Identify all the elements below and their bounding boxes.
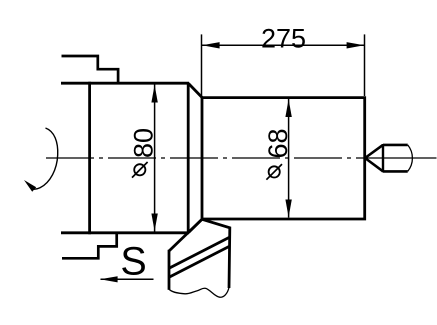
dimension 275 extension line right	[364, 34, 366, 96]
chuck top jaw clamp line / workpiece top edge	[61, 82, 189, 85]
dimension Ø68 arrowhead top	[285, 99, 291, 117]
tailstock center body top	[383, 144, 408, 147]
svg-text:S: S	[120, 240, 146, 284]
workpiece big cylinder right edge	[187, 83, 190, 233]
centerline	[46, 157, 366, 159]
svg-text:275: 275	[261, 23, 306, 53]
dimension 275 line	[202, 44, 365, 46]
chuck top jaw	[62, 56, 119, 83]
workpiece big cylinder left edge	[88, 82, 91, 234]
feed arrow line	[101, 278, 154, 280]
dimension text Ø80 (rotated)	[134, 164, 145, 175]
tool insert line lower	[169, 246, 230, 277]
tool left edge	[168, 250, 171, 290]
dimension 275 extension line left	[201, 34, 203, 96]
svg-text:80: 80	[129, 128, 159, 158]
tailstock center cone top edge	[365, 145, 383, 158]
dimension Ø68 arrowhead bottom	[285, 200, 291, 218]
dimension 275 arrowhead right	[347, 42, 365, 48]
dimension Ø80 arrowhead top	[151, 85, 157, 103]
dimension text Ø68 (rotated)	[269, 166, 280, 177]
taper top	[188, 83, 202, 97]
tailstock center rounded cap	[408, 145, 413, 172]
chuck bottom jaw clamp line / workpiece bottom edge	[61, 231, 189, 234]
dimension Ø68 line	[288, 99, 290, 218]
workpiece small cylinder outline	[202, 98, 365, 219]
tailstock center cone bottom edge	[365, 158, 383, 171]
chuck bottom jaw	[62, 233, 117, 258]
rotation arc	[33, 128, 58, 189]
feed arrowhead	[100, 276, 118, 282]
svg-text:68: 68	[263, 128, 293, 158]
tailstock center cone base	[382, 144, 384, 172]
dimension 275 arrowhead left	[202, 42, 220, 48]
taper bottom	[188, 219, 202, 232]
tailstock center body bottom	[383, 170, 408, 173]
dimension Ø80 line	[154, 84, 156, 232]
dimension Ø80 arrowhead bottom	[151, 214, 157, 232]
rotation arrowhead	[24, 180, 36, 192]
tool insert line upper	[169, 237, 230, 268]
tool wavy break line (thin)	[169, 288, 229, 298]
tool outline (thick)	[169, 219, 230, 288]
